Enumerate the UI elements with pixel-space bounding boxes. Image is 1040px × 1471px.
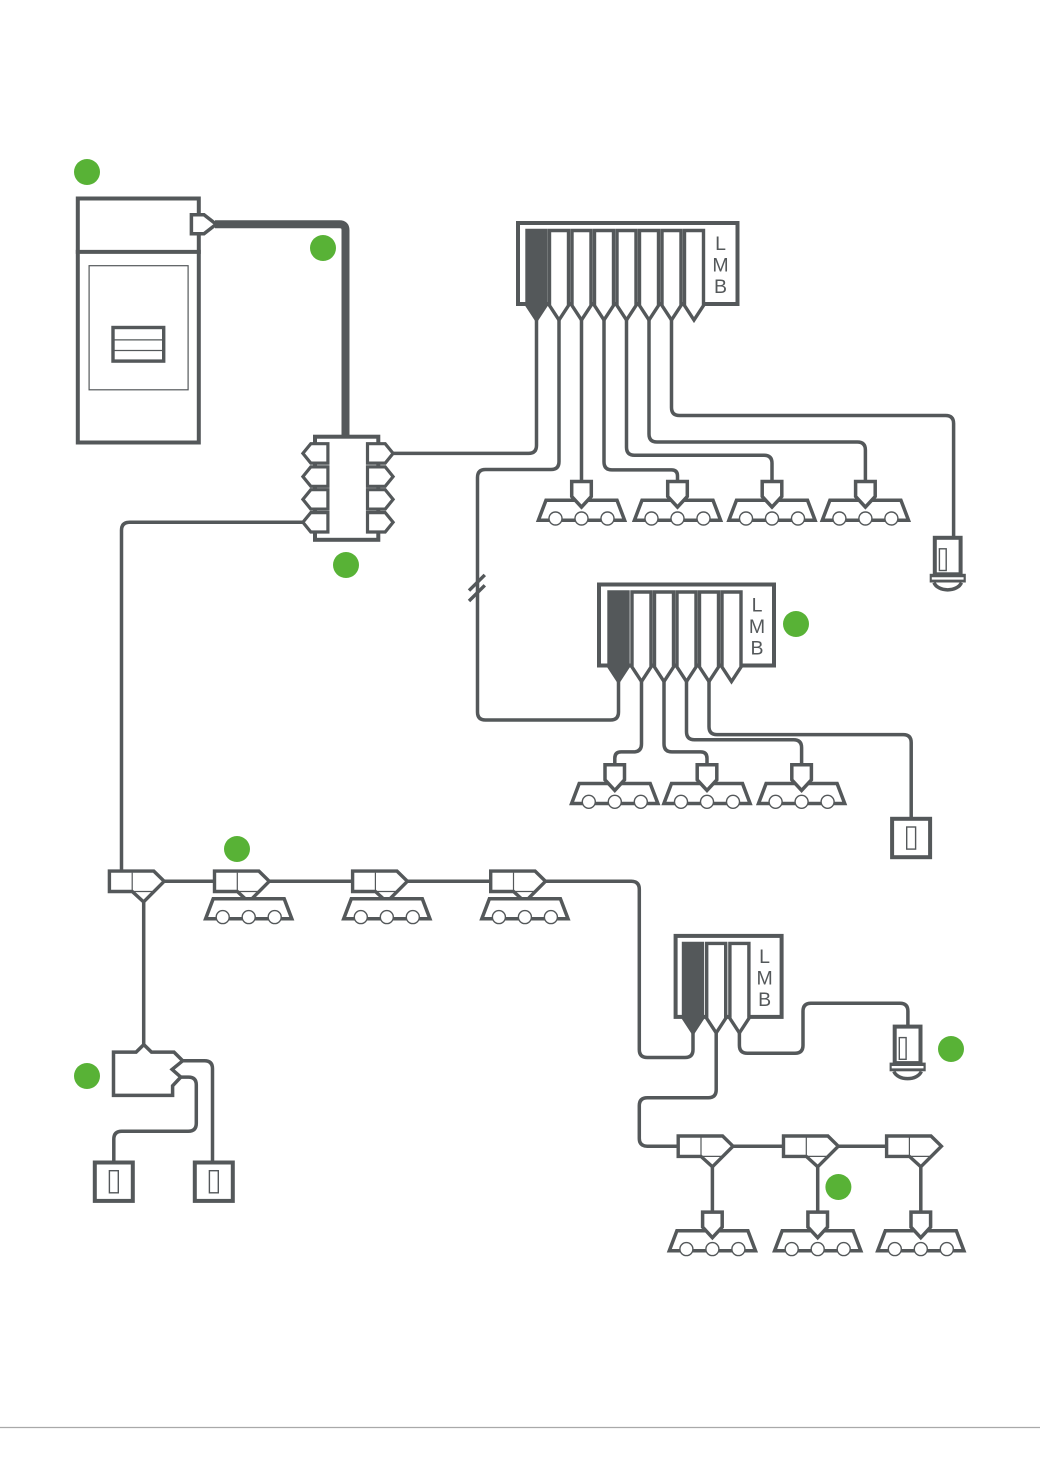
wall switch SW1 xyxy=(95,1163,133,1201)
wire LMB2 out5 to wall switch SW3 xyxy=(709,682,911,820)
downlight B3 xyxy=(759,765,845,809)
wire LMB1 out4 to downlight A2 xyxy=(604,320,678,482)
wire LMB2 out4 to downlight B3 xyxy=(687,682,802,765)
wall switch SW2 xyxy=(195,1163,233,1201)
svg-text:B: B xyxy=(758,989,771,1011)
wire bus splitter D to LMB3 input xyxy=(546,881,694,1057)
distribution panel (circuit breaker enclosure) xyxy=(76,199,201,443)
LMB module 1 xyxy=(518,223,738,320)
wire LMB1 out6 to downlight A4 xyxy=(649,320,865,482)
junction hub (two-way connection box) xyxy=(114,1045,183,1096)
bottom splitter 2 xyxy=(784,1136,839,1167)
svg-text:M: M xyxy=(756,967,772,989)
downlight D1 xyxy=(669,1212,755,1256)
cable break marks xyxy=(469,575,485,591)
downlight C3 xyxy=(482,899,568,924)
occupancy sensor S1 xyxy=(930,538,966,590)
downlight A2 xyxy=(634,482,720,526)
wall switch SW3 xyxy=(892,819,930,857)
downlight A1 xyxy=(538,482,624,526)
downlight A3 xyxy=(729,482,815,526)
downlight C1 xyxy=(206,899,292,924)
wire bus segment splitter A to splitter B xyxy=(163,880,216,884)
LMB module 3 xyxy=(676,936,782,1033)
wire LMB1 out2 to LMB2 input (long run) xyxy=(478,320,619,720)
LMB module 2 xyxy=(599,585,774,682)
wire hub to wall switch SW1 xyxy=(114,1077,197,1163)
splitter D xyxy=(491,871,546,902)
wire bus segment splitter B to splitter C xyxy=(269,880,353,884)
callout 5 (green callout dot) xyxy=(783,611,809,637)
wire LMB1 out5 to downlight A3 xyxy=(627,320,773,482)
panel output connector xyxy=(191,215,216,234)
callout 8 (green callout dot) xyxy=(825,1174,851,1200)
wire: left feed distribution block to splitter row xyxy=(122,522,304,872)
bottom splitter 1 xyxy=(678,1136,733,1167)
wire bottom splitter 1 tap to downlight D1 xyxy=(711,1166,715,1213)
downlight A4 xyxy=(822,482,908,526)
callout 6 (green callout dot) xyxy=(74,1063,100,1089)
wire LMB3 out3 to sensor S2 xyxy=(739,1003,908,1053)
distribution block (power hub with 8 connectors) xyxy=(303,437,393,540)
supply cable (thick) panel to distribution block xyxy=(215,224,346,437)
wire distribution block to LMB1 input xyxy=(392,320,537,453)
wire bottom splitter 2 tap to downlight D2 xyxy=(816,1166,820,1213)
svg-text:L: L xyxy=(759,946,770,968)
svg-text:L: L xyxy=(715,233,726,255)
downlight C2 xyxy=(344,899,430,924)
svg-text:M: M xyxy=(712,255,728,277)
wire LMB1 out3 to downlight A1 xyxy=(580,320,584,482)
wire LMB2 out3 to downlight B2 xyxy=(664,682,707,765)
wire LMB3 out2 to bottom splitter bus xyxy=(639,1033,716,1146)
wire bottom splitter 3 tap to downlight D3 xyxy=(919,1166,923,1213)
svg-text:B: B xyxy=(714,276,727,298)
wire hub to wall switch SW2 xyxy=(183,1061,213,1163)
splitter C xyxy=(353,871,408,902)
downlight B2 xyxy=(664,765,750,809)
downlight D3 xyxy=(878,1212,964,1256)
wire LMB1 out7 to sensor S1 xyxy=(672,320,954,538)
circuit breaker inside panel xyxy=(112,328,165,362)
wire bus segment splitter C to splitter D xyxy=(407,880,491,884)
callout 3 (green callout dot) xyxy=(333,552,359,578)
callout 1 (green callout dot) xyxy=(74,159,100,185)
downlight D2 xyxy=(775,1212,861,1256)
downlight B1 xyxy=(572,765,658,809)
wire bus segment bottom splitter 1 to 2 xyxy=(733,1144,785,1148)
svg-text:B: B xyxy=(750,638,763,660)
bottom splitter 3 xyxy=(887,1136,942,1167)
wire splitter tap to junction hub xyxy=(142,902,146,1046)
occupancy sensor S2 xyxy=(890,1027,926,1079)
callout 7 (green callout dot) xyxy=(938,1036,964,1062)
splitter B xyxy=(215,871,270,902)
callout 2 (green callout dot) xyxy=(310,235,336,261)
svg-text:L: L xyxy=(752,595,763,617)
svg-text:M: M xyxy=(749,616,765,638)
callout 4 (green callout dot) xyxy=(224,836,250,862)
wire LMB2 out2 to downlight B1 xyxy=(615,682,642,765)
wire bus segment bottom splitter 2 to 3 xyxy=(838,1144,887,1148)
splitter A (feed tap) xyxy=(109,871,164,902)
footer divider line xyxy=(0,1427,1040,1429)
